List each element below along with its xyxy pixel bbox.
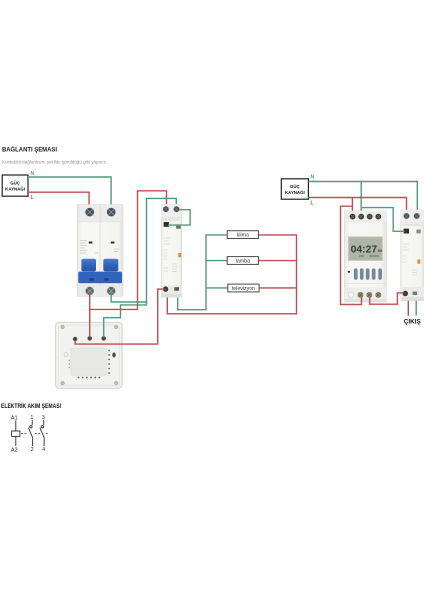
wire green: drop to timer terminal 2 — [360, 182, 362, 214]
coil bottom lead — [15, 436, 17, 446]
plate side holes — [108, 350, 110, 374]
plate corner screw BR — [114, 381, 118, 385]
wire L1: PS1 to breaker top-left terminal — [28, 192, 89, 208]
K1 orange indicator — [178, 253, 181, 257]
K2 small terminal right — [417, 230, 421, 234]
timer top screw 1 — [350, 214, 356, 220]
K1 terminal A2 (gray) — [176, 225, 181, 229]
svg-text:4: 4 — [42, 447, 45, 453]
svg-text:2: 2 — [31, 447, 34, 453]
svg-text:televizyon: televizyon — [232, 286, 255, 292]
contact 1 bottom lead — [32, 439, 34, 446]
breaker tie bar — [78, 272, 122, 284]
K1 top screw right — [174, 206, 180, 212]
wire red: lamba stub — [258, 260, 296, 262]
plate dark oval — [112, 353, 115, 358]
wire green: riser top into K1 top-right terminal — [146, 198, 177, 207]
svg-text:GÜÇ: GÜÇ — [290, 184, 301, 189]
K2 orange indicator — [417, 260, 420, 264]
svg-text:L: L — [31, 195, 34, 201]
timer top screw 4 — [375, 214, 381, 220]
wire red: breaker bottom-left down to wall plate middle terminal — [89, 292, 91, 338]
wire red: branch to riser toward contactor K1 — [90, 191, 138, 310]
wire red: televizyon stub — [259, 287, 296, 289]
contact 2 top lead — [43, 420, 45, 425]
breaker top screw right — [106, 207, 116, 217]
contact 2 bottom lead — [43, 439, 45, 446]
plate left small dots — [69, 360, 70, 368]
contactor K1 — [161, 204, 182, 297]
svg-text:A2: A2 — [11, 447, 18, 453]
K2 bottom screw (black) — [403, 291, 408, 296]
wire green: K2 output down — [415, 301, 417, 316]
timer top screw 3 — [367, 214, 373, 220]
load box klima — [227, 231, 258, 239]
contact 1 hook — [30, 426, 32, 428]
plate left knob — [64, 353, 68, 357]
breaker indicator window left — [89, 242, 93, 244]
svg-text:59: 59 — [378, 249, 382, 253]
wire red: K1 bottom-left terminal to wall plate left terminal — [75, 289, 164, 344]
timer top screw 2 — [358, 214, 364, 220]
timer bottom screw 2 — [366, 292, 372, 298]
svg-text:lamba: lamba — [236, 259, 250, 265]
breaker bottom screw left — [85, 286, 95, 296]
timer T1 — [344, 211, 386, 302]
svg-text:KAYNAĞI: KAYNAĞI — [285, 190, 305, 195]
svg-text:GÜÇ: GÜÇ — [10, 181, 21, 186]
breaker toggle left — [81, 259, 96, 272]
svg-text:04:27: 04:27 — [351, 244, 378, 255]
svg-text:Kontaktör bağlantısını şekilde: Kontaktör bağlantısını şekilde görüldüğü… — [2, 159, 107, 164]
plate terminal 1 — [73, 337, 78, 342]
plate central recess — [71, 348, 107, 375]
plate corner screw BL — [61, 381, 65, 385]
svg-text:BAĞLANTI ŞEMASI: BAĞLANTI ŞEMASI — [2, 146, 57, 154]
K2 faint markings — [403, 244, 417, 275]
svg-text:KAYNAĞI: KAYNAĞI — [5, 187, 25, 192]
breaker indicator window right — [111, 242, 115, 244]
svg-text:ÇIKIŞ: ÇIKIŞ — [404, 318, 422, 325]
K1 bottom small terminal — [174, 287, 179, 291]
breaker label text block — [80, 241, 119, 254]
wire green: K1 coil loop from top-right terminal to A1 terminal — [168, 210, 190, 225]
coil top lead — [15, 421, 17, 432]
K2 bottom block — [401, 287, 424, 301]
wire red: timer bottom to K2 bottom-left terminal — [370, 293, 404, 304]
timer black dot — [348, 271, 350, 273]
power source box PS2 — [281, 179, 308, 199]
wall plate SW1 — [56, 322, 123, 388]
svg-text:L: L — [311, 201, 314, 207]
K1 top screw left — [163, 206, 169, 212]
wire N2: PS2 to contactor K2 top-right terminal — [308, 182, 417, 213]
svg-text:N: N — [311, 175, 315, 181]
K1 bottom screw (black) — [163, 286, 168, 291]
K2 coil terminal (black) — [404, 229, 409, 234]
plate corner screw TR — [114, 325, 118, 329]
contact 1 blade — [28, 428, 33, 439]
svg-text:klima: klima — [237, 233, 249, 239]
breaker bottom screw right — [106, 286, 116, 296]
timer bottom screw 1 — [358, 292, 364, 298]
K2 bottom small terminal — [413, 292, 417, 295]
circuit breaker CB1 (2-pole MCB) — [77, 205, 123, 297]
wire N1: PS1 to breaker top-right terminal — [28, 177, 111, 208]
wire green: K1 bottom output to green bus feeding loads — [178, 235, 228, 310]
breaker bottom terminal block — [78, 285, 122, 296]
schematic: coil branch — [11, 415, 20, 453]
svg-text:ELEKTRİK AKIM ŞEMASI: ELEKTRİK AKIM ŞEMASI — [1, 403, 61, 410]
timer bottom hole — [348, 292, 353, 297]
svg-text:A1: A1 — [11, 415, 18, 421]
K1 coil terminal A1 (black) — [164, 222, 169, 227]
contact 2 hook — [41, 426, 43, 428]
timer buttons — [354, 268, 382, 279]
plate bottom holes — [78, 377, 101, 379]
wire red: wrap from terminal 1 around left to timer bottom terminal — [341, 206, 362, 304]
wire L2: PS2 to K2 top-left terminal — [308, 198, 406, 213]
schematic: contact 1-2 — [28, 415, 33, 453]
plate terminal 3 — [101, 336, 106, 341]
schematic: mechanical linkage dashes — [21, 433, 49, 435]
load box lamba — [227, 257, 258, 265]
breaker toggle right — [103, 259, 118, 272]
contactor K2 — [401, 210, 424, 301]
plate corner screw TL — [61, 325, 65, 329]
K2 top screw left — [403, 213, 410, 220]
contact 1 top lead — [31, 420, 33, 425]
coil KM — [12, 431, 20, 436]
power source box PS1 — [2, 175, 28, 196]
wire red: riser top into K1 top-left terminal — [137, 191, 167, 207]
wire green: televizyon stub — [206, 287, 228, 289]
schematic: contact 3-4 — [40, 415, 45, 453]
wire green: branch down to wall plate right terminal — [104, 302, 147, 338]
wire red: drop to timer terminal 1 — [351, 198, 353, 214]
K2 top screw right — [413, 213, 420, 220]
timer LCD — [348, 237, 382, 261]
wire red: K2 output down — [407, 301, 409, 316]
K1 bottom block — [161, 285, 182, 297]
load box televizyon — [228, 284, 259, 292]
wire green: lamba stub — [206, 260, 227, 262]
timer bottom screw 3 — [375, 292, 381, 298]
K1 faint markings — [164, 238, 177, 272]
wire green: timer terminal 2 branch to K2 coil terminal — [362, 208, 405, 232]
wire green: breaker bottom-right to green riser — [111, 198, 146, 302]
breaker top screw left — [85, 207, 95, 217]
plate terminal 2 — [87, 336, 92, 341]
wire red: K1 bottom output to red bus feeding loads — [167, 235, 296, 314]
contact 2 blade — [40, 428, 45, 439]
